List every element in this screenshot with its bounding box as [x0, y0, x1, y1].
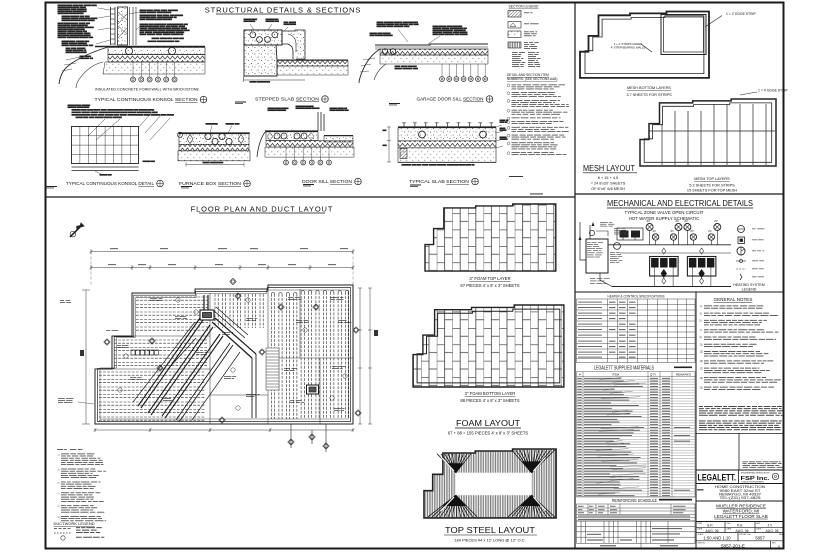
svg-text:CHK: CHK: [727, 523, 732, 525]
svg-text:3): 3): [700, 312, 702, 315]
svg-text:ZV: ZV: [671, 229, 675, 233]
svg-text:HEATER & CONTROL SPECIFICATIO: HEATER & CONTROL SPECIFICATIONS: [608, 295, 665, 299]
svg-text:ENGINEERING SERVICES BY: ENGINEERING SERVICES BY: [741, 472, 771, 474]
svg-text:3): 3): [58, 469, 60, 471]
svg-text:AUG. 06: AUG. 06: [735, 529, 748, 533]
svg-text:5): 5): [700, 320, 702, 323]
svg-text:13): 13): [700, 351, 704, 354]
svg-text:J.T.: J.T.: [767, 523, 772, 527]
svg-text:TYPICAL ZONE VALVE OPEN CIRCUI: TYPICAL ZONE VALVE OPEN CIRCUIT: [625, 210, 704, 215]
svg-text:11): 11): [700, 343, 703, 346]
svg-text:ZV: ZV: [714, 219, 718, 223]
svg-text:1 = 2' EDGE STRIP: 1 = 2' EDGE STRIP: [726, 12, 756, 16]
svg-text:FLOOR PLAN AND DUCT LAYOUT: FLOOR PLAN AND DUCT LAYOUT: [191, 205, 334, 214]
svg-text:MECHANICAL AND ELECTRICAL DETA: MECHANICAL AND ELECTRICAL DETAILS: [607, 199, 753, 208]
svg-text:3.7 SHEETS FOR STRIPS: 3.7 SHEETS FOR STRIPS: [626, 93, 672, 97]
svg-text:QTY: QTY: [650, 373, 656, 377]
svg-text:MESH BOTTOM LAYERS: MESH BOTTOM LAYERS: [627, 86, 671, 90]
svg-text:= 24 8'x20' SHEETS: = 24 8'x20' SHEETS: [591, 182, 626, 186]
svg-text:FOAM LAYOUT: FOAM LAYOUT: [456, 419, 520, 428]
svg-text:S.P.: S.P.: [707, 523, 713, 527]
svg-text:GARAGE DOOR SILL SECTION: GARAGE DOOR SILL SECTION: [417, 97, 484, 102]
svg-text:LEGEND: LEGEND: [742, 288, 757, 292]
svg-text:3" FOAM TOP LAYER: 3" FOAM TOP LAYER: [469, 276, 510, 281]
svg-text:ZV: ZV: [684, 219, 688, 223]
svg-text:ZV: ZV: [690, 229, 694, 233]
svg-text:5857-201-E: 5857-201-E: [721, 544, 745, 549]
svg-text:HEATING SYSTEM: HEATING SYSTEM: [733, 283, 764, 287]
svg-text:APP: APP: [757, 522, 761, 525]
svg-text:MESH LAYOUT: MESH LAYOUT: [583, 164, 635, 173]
svg-text:5857: 5857: [755, 535, 765, 540]
svg-text:67 + 88 = 155 PIECES 4' x 8' x: 67 + 88 = 155 PIECES 4' x 8' x 3" SHEETS: [448, 431, 529, 436]
svg-text:AUG. 06: AUG. 06: [765, 529, 778, 533]
svg-text:184 PIECES #4 x 12' LONG @ 12": 184 PIECES #4 x 12' LONG @ 12" O.C.: [454, 538, 525, 543]
svg-text:LEGALETT SUPPLIED MATERIALS: LEGALETT SUPPLIED MATERIALS: [594, 366, 654, 372]
svg-text:1 = 4' EDGE STRIP: 1 = 4' EDGE STRIP: [758, 89, 788, 93]
svg-text:NUMBERS: (SEE SECTIONS A&B): NUMBERS: (SEE SECTIONS A&B): [507, 77, 557, 81]
svg-text:5.2 SHEETS FOR STRIPS: 5.2 SHEETS FOR STRIPS: [689, 184, 735, 188]
svg-text:TEL:(231) 937-4825: TEL:(231) 937-4825: [720, 496, 761, 500]
svg-text:SECTION LEGEND: SECTION LEGEND: [509, 5, 540, 9]
svg-text:DATE: DATE: [757, 528, 762, 531]
svg-text:LEGALETT.: LEGALETT.: [698, 473, 737, 484]
svg-text:MESH TOP LAYERS: MESH TOP LAYERS: [694, 177, 730, 181]
svg-text:#: #: [579, 373, 581, 377]
svg-text:17): 17): [700, 367, 704, 370]
svg-text:DATE: DATE: [698, 528, 703, 531]
svg-text:REV: REV: [772, 543, 776, 545]
svg-text:STRUCTURAL DETAILS & SECTIONS: STRUCTURAL DETAILS & SECTIONS: [205, 6, 362, 15]
svg-text:HOT WATER SUPPLY SCHEMATIC: HOT WATER SUPPLY SCHEMATIC: [629, 216, 700, 221]
svg-text:1): 1): [58, 454, 60, 456]
svg-text:ZV: ZV: [653, 229, 657, 233]
svg-text:ZV: ZV: [647, 219, 651, 223]
svg-text:DUCTWORK LEGEND: DUCTWORK LEGEND: [54, 521, 95, 526]
svg-text:ZV: ZV: [676, 219, 680, 223]
svg-text:AUG. 06: AUG. 06: [705, 529, 718, 533]
svg-text:0: 0: [778, 545, 780, 549]
svg-text:INSULATED CONCRETE FORM WALL W: INSULATED CONCRETE FORM WALL WITH BRICK/…: [95, 88, 200, 92]
svg-text:LEGALETT FLOOR SLAB: LEGALETT FLOOR SLAB: [714, 514, 768, 519]
svg-text:STEPPED SLAB SECTION: STEPPED SLAB SECTION: [255, 97, 319, 102]
svg-text:19): 19): [700, 377, 704, 380]
svg-text:TYPICAL SLAB SECTION: TYPICAL SLAB SECTION: [409, 179, 469, 184]
svg-text:OF 6"x6" 6/6 MESH: OF 6"x6" 6/6 MESH: [591, 187, 625, 191]
svg-text:9): 9): [58, 506, 60, 508]
svg-text:GENERAL NOTES: GENERAL NOTES: [714, 297, 753, 302]
svg-text:9): 9): [700, 336, 702, 339]
svg-text:5): 5): [58, 482, 60, 484]
svg-text:6 + 15 + 4.5: 6 + 15 + 4.5: [598, 176, 618, 180]
svg-text:15): 15): [700, 360, 704, 363]
svg-text:ITEM: ITEM: [612, 373, 620, 377]
svg-text:DWN: DWN: [698, 523, 703, 525]
svg-text:21): 21): [700, 386, 704, 389]
svg-text:TYPICAL CONTINUOUS KONSOL DETA: TYPICAL CONTINUOUS KONSOL DETAIL: [66, 181, 155, 186]
svg-text:TOP STEEL LAYOUT: TOP STEEL LAYOUT: [445, 526, 535, 535]
svg-text:88 PIECES 4' x 8' x 3" SHEETS: 88 PIECES 4' x 8' x 3" SHEETS: [460, 398, 519, 403]
svg-text:11): 11): [58, 517, 61, 519]
svg-text:1:50 AND 1:10: 1:50 AND 1:10: [703, 535, 731, 540]
svg-text:7): 7): [58, 493, 60, 495]
svg-text:FURNACE BOX SECTION: FURNACE BOX SECTION: [179, 181, 241, 186]
svg-text:1): 1): [700, 305, 702, 308]
svg-text:P.H.: P.H.: [737, 523, 743, 527]
svg-text:PROJECT No.: PROJECT No.: [740, 534, 752, 536]
svg-text:4' STRIP BEARING WALLS: 4' STRIP BEARING WALLS: [611, 46, 646, 50]
svg-text:CONSULTING ENGINEERS: CONSULTING ENGINEERS: [741, 481, 765, 483]
svg-text:7): 7): [700, 329, 702, 332]
svg-text:DOOR SILL SECTION: DOOR SILL SECTION: [302, 179, 352, 184]
svg-text:TYPICAL CONTINUOUS KONSOL SECT: TYPICAL CONTINUOUS KONSOL SECTION: [95, 97, 198, 102]
svg-text:REINFORCING SCHEDULE: REINFORCING SCHEDULE: [612, 498, 657, 503]
svg-text:REMARKS: REMARKS: [676, 373, 691, 377]
svg-text:PAGE: PAGE: [779, 533, 785, 536]
svg-text:67 PIECES 4' x 8' x 3" SHEETS: 67 PIECES 4' x 8' x 3" SHEETS: [460, 283, 519, 288]
svg-text:15 SHEETS FOR TOP MESH: 15 SHEETS FOR TOP MESH: [687, 189, 737, 193]
svg-text:DWG No.: DWG No.: [698, 543, 706, 545]
svg-text:DATE: DATE: [727, 528, 732, 531]
svg-text:3" FOAM BOTTOM LAYER: 3" FOAM BOTTOM LAYER: [465, 391, 516, 396]
svg-text:ZV: ZV: [708, 229, 712, 233]
